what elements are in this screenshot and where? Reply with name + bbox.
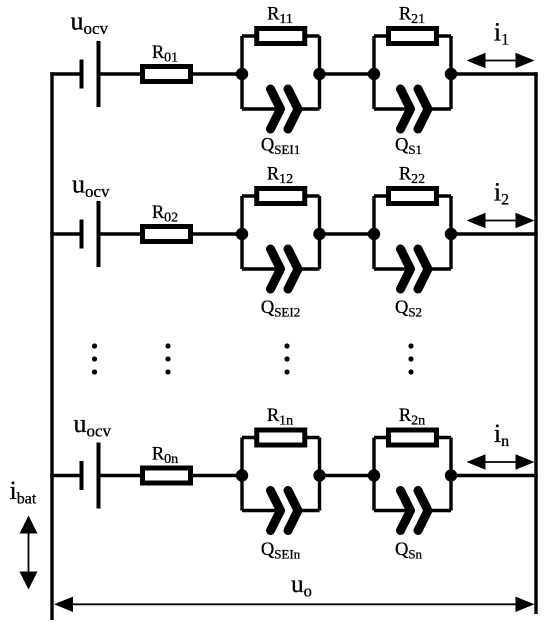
resistor R12 — [257, 189, 305, 204]
current arrow i_bat — [28, 532, 30, 574]
CPE Q_Sn (double chevron) — [401, 491, 429, 531]
wire: box2 right side row 1 — [449, 36, 452, 109]
wire: box2 to right bus row n — [451, 474, 538, 477]
wire: left bus — [50, 72, 53, 620]
wire: box1 top side row 1 — [242, 34, 320, 37]
continuation dots column 1 (battery) — [92, 343, 97, 374]
wire: box2 bottom right segment row 2 — [428, 267, 451, 270]
resistor R22 — [389, 189, 437, 204]
wire: box2 right side row n — [449, 438, 452, 511]
wire: R02 to node — [189, 232, 242, 235]
node: right of box2 row n — [445, 469, 457, 481]
wire: left bus to battery row 2 — [50, 232, 81, 235]
wire: box1 bottom right segment row n — [298, 509, 320, 512]
node: right of box2 row 2 — [445, 228, 457, 240]
wire: box2 right side row 2 — [449, 196, 452, 269]
wire: box2 bottom right segment row n — [428, 509, 451, 512]
current arrow i_2 — [484, 220, 518, 222]
resistor R1n — [257, 430, 305, 445]
wire: box2 top side row 1 — [374, 34, 451, 37]
CPE Q_S1 (double chevron) — [401, 89, 429, 129]
wire: box1 right side row n — [318, 438, 321, 511]
wire: battery to R01 — [99, 72, 145, 75]
voltage source u_ocv row 1 (battery symbol) — [82, 41, 99, 107]
wire: battery to R0n — [99, 474, 145, 477]
resistor R2n — [389, 430, 437, 445]
resistor R01 — [143, 67, 191, 82]
wire: left bus to battery row 1 — [50, 72, 81, 75]
node: right of box1 row n — [313, 469, 325, 481]
wire: box2 bottom left segment row n — [374, 509, 411, 512]
voltage source u_ocv row 2 (battery symbol) — [82, 201, 99, 267]
node: right of box1 row 2 — [313, 228, 325, 240]
resistor R11 — [257, 29, 305, 44]
continuation dots column 3 (box1) — [284, 343, 289, 374]
wire: box1 top side row 2 — [242, 194, 320, 197]
node: left of box1 row 1 — [236, 68, 248, 80]
wire: box1 bottom left segment row 1 — [242, 107, 281, 110]
wire: battery to R02 — [99, 232, 145, 235]
wire: box1 left side row 2 — [240, 196, 243, 269]
wire: box2 left side row 2 — [372, 196, 375, 269]
wire: box2 left side row 1 — [372, 36, 375, 109]
wire: box1 left side row 1 — [240, 36, 243, 109]
continuation dots column 4 (box2) — [408, 343, 413, 374]
node: left of box2 row 2 — [368, 228, 380, 240]
CPE Q_SEI1 (double chevron) — [271, 89, 299, 129]
wire: box1 to box2 row 1 — [320, 72, 375, 75]
wire: right bus — [534, 72, 537, 614]
wire: box1 bottom right segment row 2 — [298, 267, 320, 270]
continuation dots column 2 (R0) — [165, 343, 170, 374]
wire: box2 bottom right segment row 1 — [428, 107, 451, 110]
resistor R21 — [389, 29, 437, 44]
wire: box2 to right bus row 2 — [451, 232, 538, 235]
resistor R0n — [143, 468, 191, 483]
resistor R02 — [143, 227, 191, 242]
voltage arrow u_o — [71, 603, 518, 605]
wire: box2 bottom left segment row 2 — [374, 267, 411, 270]
node: left of box1 row n — [236, 469, 248, 481]
wire: box2 top side row n — [374, 436, 451, 439]
CPE Q_SEI2 (double chevron) — [271, 249, 299, 289]
wire: box1 to box2 row 2 — [320, 232, 375, 235]
wire: box2 to right bus row 1 — [451, 72, 538, 75]
wire: R01 to node — [189, 72, 242, 75]
wire: box1 right side row 1 — [318, 36, 321, 109]
current arrow i_1 — [484, 60, 518, 62]
wire: R0n to node — [189, 474, 242, 477]
voltage source u_ocv row n (battery symbol) — [82, 443, 99, 509]
wire: box1 bottom left segment row 2 — [242, 267, 281, 270]
node: left of box2 row 1 — [368, 68, 380, 80]
wire: left bus to battery row n — [50, 474, 81, 477]
wire: box2 top side row 2 — [374, 194, 451, 197]
wire: box2 left side row n — [372, 438, 375, 511]
wire: box1 top side row n — [242, 436, 320, 439]
CPE Q_SEIn (double chevron) — [271, 491, 299, 531]
node: left of box1 row 2 — [236, 228, 248, 240]
wire: box1 to box2 row n — [320, 474, 375, 477]
node: left of box2 row n — [368, 469, 380, 481]
current arrow i_n — [484, 461, 518, 463]
CPE Q_S2 (double chevron) — [401, 249, 429, 289]
wire: box1 bottom left segment row n — [242, 509, 281, 512]
wire: box2 bottom left segment row 1 — [374, 107, 411, 110]
wire: box1 bottom right segment row 1 — [298, 107, 320, 110]
wire: box1 left side row n — [240, 438, 243, 511]
node: right of box1 row 1 — [313, 68, 325, 80]
node: right of box2 row 1 — [445, 68, 457, 80]
wire: box1 right side row 2 — [318, 196, 321, 269]
